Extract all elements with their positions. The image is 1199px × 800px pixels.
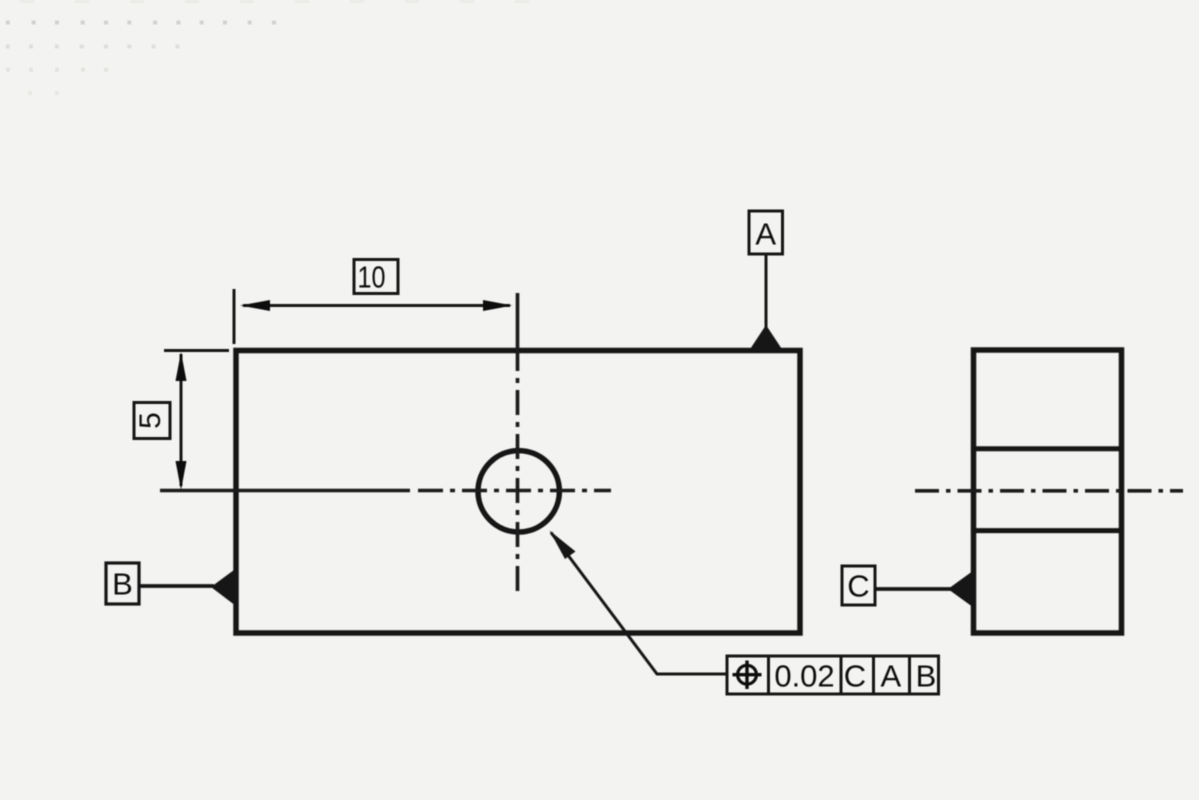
svg-text:A: A — [755, 217, 776, 252]
datum feature symbol C (side view left surface) — [842, 566, 974, 608]
hole vertical centerline (also extension line for dimension 10) — [516, 293, 520, 596]
hole horizontal centerline (also extension line for dimension 5) — [160, 489, 611, 493]
svg-text:A: A — [880, 659, 901, 694]
hole (circle) — [478, 451, 559, 532]
basic dimension 5 (boxed value, extension line, dimension line, arrowheads) — [134, 351, 229, 491]
svg-text:C: C — [847, 569, 869, 604]
svg-text:C: C — [844, 659, 866, 694]
part front view outline — [236, 351, 800, 634]
svg-text:5: 5 — [134, 412, 167, 429]
datum feature symbol A (top surface) — [749, 211, 783, 350]
side view horizontal centerline — [915, 489, 1183, 493]
part side view outline — [974, 350, 1122, 633]
svg-text:B: B — [916, 659, 937, 694]
basic dimension 10 (boxed value, extension line, dimension line, arrowheads) — [234, 260, 513, 345]
side view hole lower edge — [971, 528, 1124, 533]
datum feature symbol B (left surface) — [106, 563, 236, 606]
position tolerance symbol — [733, 661, 762, 690]
feature control frame outline and cell dividers — [727, 656, 939, 694]
svg-text:10: 10 — [358, 260, 386, 295]
svg-text:B: B — [112, 567, 133, 602]
side view hole upper edge — [971, 446, 1124, 451]
leader from feature control frame to hole with arrowhead — [550, 531, 727, 675]
svg-text:0.02: 0.02 — [774, 659, 834, 694]
